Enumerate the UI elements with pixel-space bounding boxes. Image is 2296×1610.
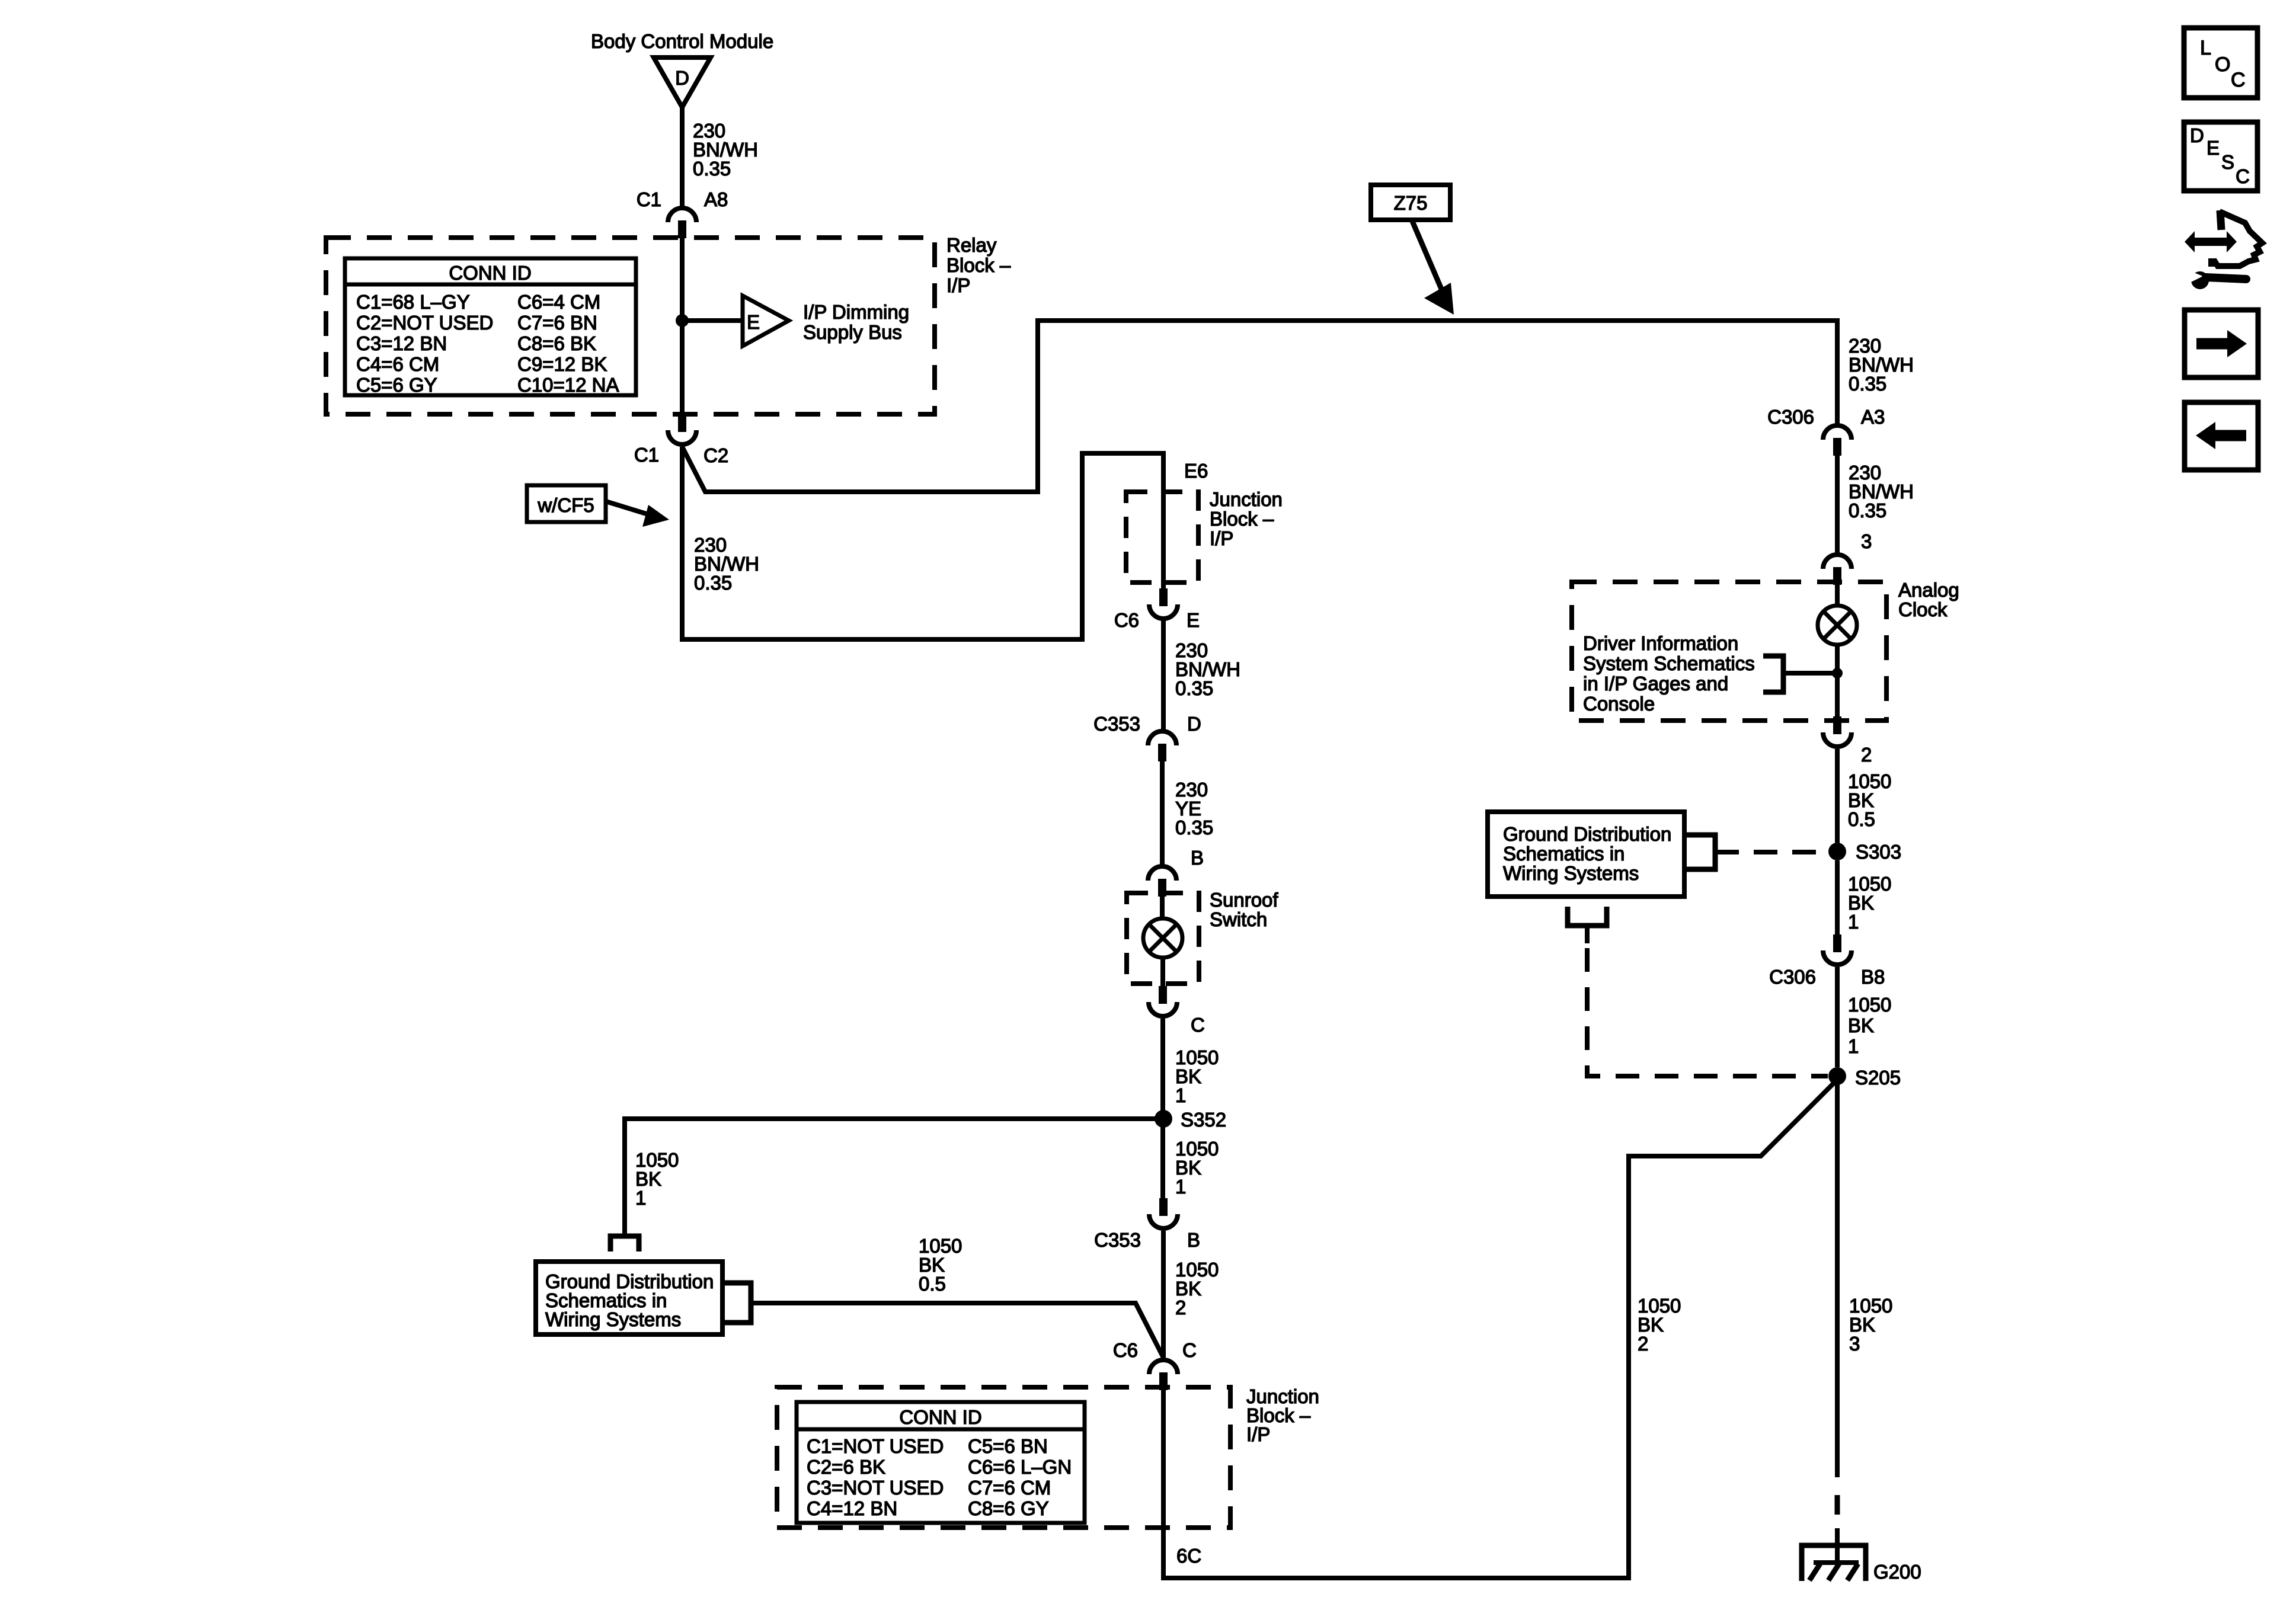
svg-text:CONN ID: CONN ID bbox=[899, 1406, 981, 1428]
label Sunroof Switch bbox=[1210, 889, 1278, 930]
svg-text:C: C bbox=[2236, 165, 2250, 187]
wire label 1050 BK 1 bbox=[635, 1149, 679, 1209]
svg-text:C2=6 BK: C2=6 BK bbox=[807, 1456, 885, 1478]
svg-text:C7=6 BN: C7=6 BN bbox=[517, 312, 597, 334]
nav box LOC bbox=[2184, 28, 2257, 98]
svg-text:C6=6 L–GN: C6=6 L–GN bbox=[968, 1456, 1072, 1478]
Z75 arrow bbox=[1412, 220, 1454, 315]
off-page bracket below right box bbox=[1568, 907, 1607, 926]
svg-text:E: E bbox=[2207, 137, 2220, 159]
svg-text:C306: C306 bbox=[1769, 966, 1816, 988]
connector C306/A3 bbox=[1823, 425, 1851, 456]
svg-text:3: 3 bbox=[1849, 1333, 1860, 1355]
svg-text:O: O bbox=[2215, 53, 2230, 76]
svg-text:B: B bbox=[1187, 1229, 1200, 1251]
nav box forward arrow bbox=[2185, 310, 2258, 377]
connector C353/D bbox=[1148, 731, 1176, 761]
svg-text:A8: A8 bbox=[704, 188, 728, 210]
svg-text:C: C bbox=[2231, 69, 2246, 91]
Relay Block - I/P dashed outline bbox=[326, 238, 935, 414]
Junction Block - I/P dashed outline (bottom) bbox=[777, 1387, 1230, 1528]
connector B (sunroof switch) bbox=[1148, 866, 1176, 897]
wire label 230 YE 0.35 bbox=[1175, 779, 1213, 838]
bracket connector (driver information) bbox=[1763, 656, 1783, 692]
svg-text:C3=12 BN: C3=12 BN bbox=[356, 332, 447, 354]
wire label 230 BN/WH 0.35 bbox=[1175, 639, 1240, 699]
svg-text:2: 2 bbox=[1861, 744, 1872, 766]
wire label 1050 BK 1 bbox=[1848, 873, 1891, 933]
svg-text:Console: Console bbox=[1583, 693, 1655, 715]
nav box back arrow bbox=[2185, 402, 2258, 470]
svg-text:Block –: Block – bbox=[1210, 508, 1274, 530]
wire label 1050 BK 2 bbox=[1175, 1259, 1219, 1318]
wire: pin B to lamp bbox=[1160, 897, 1165, 920]
wire: C2 branch to Z75 dimming bus and right column bbox=[682, 321, 1837, 492]
connector C306/B8 bbox=[1823, 934, 1851, 965]
wire: BCM pin D down to connector C1/A8 bbox=[680, 105, 685, 207]
svg-text:C5=6 BN: C5=6 BN bbox=[968, 1435, 1048, 1457]
svg-text:Wiring Systems: Wiring Systems bbox=[545, 1308, 681, 1330]
wire label 230 BN/WH 0.35 bbox=[1849, 335, 1914, 395]
connector C6/C bbox=[1149, 1360, 1178, 1390]
svg-text:E: E bbox=[747, 311, 760, 333]
nav box DESC bbox=[2184, 122, 2257, 191]
svg-text:I/P: I/P bbox=[1210, 527, 1233, 549]
svg-text:C10=12 NA: C10=12 NA bbox=[517, 374, 619, 396]
svg-text:Driver Information: Driver Information bbox=[1583, 632, 1738, 654]
label Analog Clock bbox=[1898, 579, 1959, 620]
svg-text:C: C bbox=[1191, 1014, 1205, 1036]
svg-text:I/P: I/P bbox=[946, 274, 970, 296]
svg-text:A3: A3 bbox=[1861, 406, 1885, 428]
label I/P Dimming Supply Bus bbox=[803, 301, 909, 343]
wire: pin C down to S352 bbox=[1160, 1019, 1165, 1119]
svg-text:C3=NOT USED: C3=NOT USED bbox=[807, 1477, 944, 1499]
svg-text:C8=6 GY: C8=6 GY bbox=[968, 1497, 1049, 1519]
connector C1/C2 (tick from relay block into cup) bbox=[668, 414, 696, 444]
wire label 1050 BK 1 bbox=[1175, 1138, 1219, 1198]
svg-text:C5=6 GY: C5=6 GY bbox=[356, 374, 437, 396]
svg-text:1: 1 bbox=[1848, 911, 1859, 933]
diagnostic icon (double arrow, vehicle outline, wrench) bbox=[2185, 210, 2262, 289]
connector 2 (analog clock) bbox=[1823, 716, 1851, 747]
wire: left box to connector C6/C bbox=[751, 1303, 1163, 1358]
illumination lamp (analog clock) bbox=[1818, 606, 1857, 645]
svg-text:D: D bbox=[2190, 124, 2204, 146]
wire: pin 3 to clock lamp bbox=[1835, 585, 1840, 606]
label Relay Block - I/P bbox=[946, 234, 1011, 296]
svg-text:C1=68 L–GY: C1=68 L–GY bbox=[356, 291, 470, 313]
off-page bracket (ground distribution, left) bbox=[610, 1236, 639, 1251]
svg-text:CONN ID: CONN ID bbox=[449, 262, 531, 284]
wire: C6/E down to C353/D bbox=[1161, 620, 1166, 729]
svg-text:C353: C353 bbox=[1093, 713, 1140, 735]
Analog Clock dashed outline bbox=[1572, 582, 1886, 721]
svg-text:L: L bbox=[2200, 37, 2211, 59]
connector C (sunroof switch) bbox=[1149, 986, 1177, 1016]
svg-text:Ground Distribution: Ground Distribution bbox=[1503, 823, 1671, 845]
Ground Distribution Schematics box (left) bbox=[536, 1262, 722, 1334]
svg-text:1: 1 bbox=[635, 1187, 646, 1209]
wire: connector C1/A8 into Relay Block bbox=[680, 238, 685, 415]
svg-text:E: E bbox=[1187, 609, 1200, 631]
wire: S352 left to off-page ground distribution bbox=[625, 1119, 1163, 1234]
CONN ID table (Relay Block) bbox=[345, 258, 636, 396]
svg-text:S303: S303 bbox=[1856, 841, 1901, 863]
dashed wire: off-page bracket to S205 bbox=[1587, 948, 1828, 1076]
svg-text:G200: G200 bbox=[1873, 1561, 1921, 1583]
connector 3 (analog clock) bbox=[1823, 555, 1851, 585]
wire: S303 down to C306/B8 bbox=[1835, 860, 1840, 935]
w/CF5 arrow bbox=[606, 501, 669, 527]
svg-text:0.35: 0.35 bbox=[694, 572, 732, 594]
svg-text:1: 1 bbox=[1175, 1176, 1186, 1198]
svg-text:0.35: 0.35 bbox=[1175, 817, 1213, 838]
wire label 230 BN/WH 0.35 bbox=[1849, 462, 1914, 521]
svg-text:E6: E6 bbox=[1184, 460, 1208, 482]
dashed wire: bracket to S303 bbox=[1715, 850, 1828, 854]
node: junction to dimming bus buffer bbox=[676, 314, 689, 327]
svg-text:C9=12 BK: C9=12 BK bbox=[517, 353, 607, 375]
buffer E (I/P Dimming Supply Bus) bbox=[743, 296, 789, 346]
svg-text:System Schematics: System Schematics bbox=[1583, 652, 1755, 674]
svg-text:in I/P Gages and: in I/P Gages and bbox=[1583, 673, 1728, 694]
connector C1/A8 bbox=[668, 208, 696, 238]
svg-text:C1=NOT USED: C1=NOT USED bbox=[807, 1435, 944, 1457]
svg-text:C: C bbox=[1182, 1339, 1197, 1361]
Sunroof Switch dashed outline bbox=[1127, 893, 1199, 984]
wire: junction to buffer E bbox=[682, 318, 743, 323]
svg-text:Switch: Switch bbox=[1210, 908, 1267, 930]
wire label 1050 BK 2 bbox=[1638, 1295, 1681, 1355]
wire label 230 BN/WH 0.35 bbox=[694, 534, 759, 594]
CONN ID table (junction block) bbox=[797, 1402, 1085, 1523]
wire: S352 down to C353/B bbox=[1160, 1127, 1165, 1199]
wire: lamp down to pin 2 bbox=[1835, 645, 1840, 718]
bracket connector (right box) bbox=[1684, 835, 1715, 869]
svg-text:C6=4 CM: C6=4 CM bbox=[517, 291, 600, 313]
wire label 1050 BK 1 bbox=[1848, 994, 1891, 1057]
svg-text:D: D bbox=[1187, 713, 1201, 735]
svg-text:6C: 6C bbox=[1176, 1545, 1201, 1567]
wire: C306/A3 down to analog clock pin 3 bbox=[1835, 456, 1840, 553]
wire label 230 BN/WH 0.35 bbox=[693, 120, 758, 180]
w/CF5 callout box bbox=[527, 485, 606, 522]
svg-text:C6: C6 bbox=[1113, 1339, 1138, 1361]
svg-text:1: 1 bbox=[1848, 1035, 1859, 1057]
svg-text:0.35: 0.35 bbox=[1175, 677, 1213, 699]
label Junction Block - I/P (bottom) bbox=[1246, 1385, 1319, 1445]
svg-text:1: 1 bbox=[1175, 1084, 1186, 1106]
svg-text:2: 2 bbox=[1175, 1297, 1186, 1318]
svg-text:Junction: Junction bbox=[1210, 488, 1283, 510]
svg-text:w/CF5: w/CF5 bbox=[537, 494, 594, 516]
svg-text:Schematics in: Schematics in bbox=[1503, 843, 1625, 865]
svg-text:S205: S205 bbox=[1855, 1067, 1901, 1089]
svg-text:0.5: 0.5 bbox=[919, 1273, 946, 1295]
svg-text:Sunroof: Sunroof bbox=[1210, 889, 1278, 911]
wire label 1050 BK 0.5 bbox=[1848, 770, 1891, 830]
node S303 bbox=[1828, 843, 1846, 860]
svg-text:B8: B8 bbox=[1861, 966, 1885, 988]
svg-text:Analog: Analog bbox=[1898, 579, 1959, 601]
svg-text:Relay: Relay bbox=[946, 234, 997, 256]
svg-text:0.35: 0.35 bbox=[1849, 373, 1886, 395]
wire: C353/B down to C6/C bbox=[1161, 1231, 1166, 1358]
node: junction inside analog clock bbox=[1832, 668, 1843, 678]
wire: lamp to pin C bbox=[1160, 956, 1165, 987]
wire label 1050 BK 1 bbox=[1175, 1046, 1219, 1106]
dashed wire: to ground G200 bbox=[1835, 1495, 1840, 1515]
illumination lamp (sunroof switch) bbox=[1143, 918, 1182, 958]
svg-text:Supply Bus: Supply Bus bbox=[803, 321, 902, 343]
svg-text:Block –: Block – bbox=[946, 254, 1011, 276]
connector C353/B bbox=[1149, 1198, 1178, 1228]
module symbol D (Body Control Module) bbox=[654, 57, 711, 107]
svg-text:C2=NOT USED: C2=NOT USED bbox=[356, 312, 493, 334]
wire label 1050 BK 3 bbox=[1849, 1295, 1892, 1355]
node S205 bbox=[1828, 1067, 1846, 1085]
svg-text:C2: C2 bbox=[703, 444, 728, 466]
svg-text:D: D bbox=[675, 67, 689, 89]
node S352 bbox=[1155, 1110, 1172, 1128]
wire: C353/D down to sunroof switch pin B bbox=[1160, 761, 1165, 865]
Junction Block - I/P dashed outline (E6) bbox=[1126, 492, 1198, 582]
svg-text:0.35: 0.35 bbox=[693, 158, 731, 180]
svg-text:Clock: Clock bbox=[1898, 598, 1948, 620]
connector C6/E bbox=[1149, 588, 1178, 619]
svg-text:0.35: 0.35 bbox=[1849, 500, 1886, 521]
svg-text:C6: C6 bbox=[1114, 609, 1139, 631]
label Driver Information System Schematics in I/P Gages and Console bbox=[1583, 632, 1755, 715]
svg-text:3: 3 bbox=[1861, 530, 1872, 552]
svg-text:Wiring Systems: Wiring Systems bbox=[1503, 862, 1639, 884]
svg-text:Z75: Z75 bbox=[1394, 192, 1428, 214]
svg-text:I/P: I/P bbox=[1246, 1423, 1270, 1445]
Ground Distribution Schematics box (right) bbox=[1488, 812, 1684, 897]
svg-text:C353: C353 bbox=[1094, 1229, 1141, 1251]
svg-text:2: 2 bbox=[1638, 1333, 1648, 1355]
svg-text:S: S bbox=[2221, 151, 2234, 173]
svg-text:C1: C1 bbox=[634, 444, 659, 466]
svg-text:BK: BK bbox=[1848, 1014, 1874, 1036]
label Junction Block - I/P (E6) bbox=[1210, 488, 1283, 549]
ground G200 bbox=[1802, 1545, 1866, 1581]
wire: junction block 6C down, right and up to S205 bbox=[1163, 1080, 1837, 1578]
svg-text:0.5: 0.5 bbox=[1848, 808, 1875, 830]
wire: C1 branch down / right / up to junction block E6 bbox=[682, 447, 1163, 639]
svg-text:S352: S352 bbox=[1181, 1109, 1226, 1131]
svg-text:C1: C1 bbox=[637, 188, 661, 210]
svg-text:C8=6 BK: C8=6 BK bbox=[517, 332, 596, 354]
wire: S205 down toward G200 bbox=[1835, 1084, 1840, 1477]
svg-text:C306: C306 bbox=[1767, 406, 1814, 428]
wire label 1050 BK 0.5 bbox=[919, 1235, 962, 1295]
svg-text:B: B bbox=[1191, 847, 1204, 869]
bracket connector (left box) bbox=[722, 1283, 751, 1323]
wire: pin 2 down to S303 bbox=[1835, 749, 1840, 852]
Z75 callout box bbox=[1371, 185, 1450, 220]
svg-text:C4=12 BN: C4=12 BN bbox=[807, 1497, 897, 1519]
wire: bracket to clock lamp wire bbox=[1783, 671, 1837, 676]
svg-text:C4=6 CM: C4=6 CM bbox=[356, 353, 439, 375]
wire: C306/B8 down to S205 bbox=[1835, 967, 1840, 1067]
svg-text:Body Control Module: Body Control Module bbox=[591, 30, 773, 52]
svg-text:C7=6 CM: C7=6 CM bbox=[968, 1477, 1051, 1499]
svg-text:1050: 1050 bbox=[1848, 994, 1891, 1016]
svg-text:I/P Dimming: I/P Dimming bbox=[803, 301, 909, 323]
